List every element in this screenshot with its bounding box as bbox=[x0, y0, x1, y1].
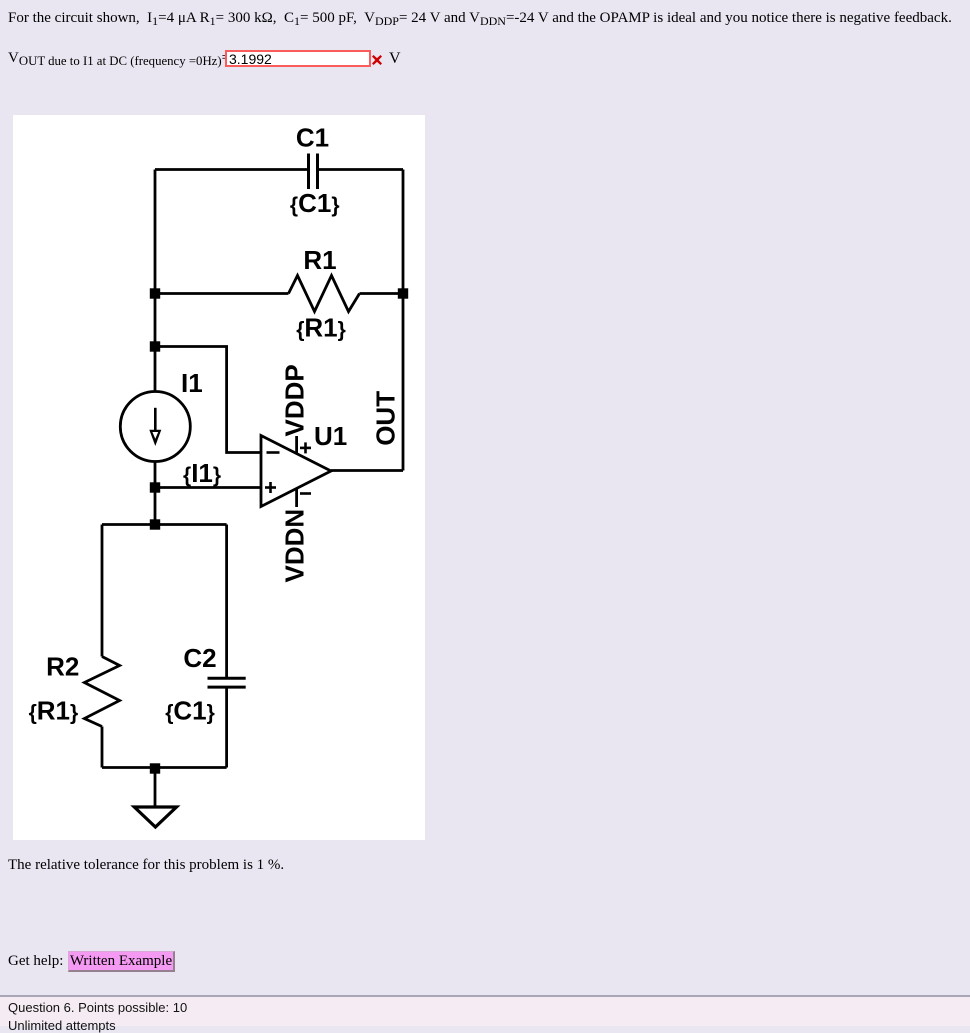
wire: branch to inverting input bbox=[155, 347, 261, 453]
junction (142,372.5) bbox=[150, 482, 160, 492]
ground triangle bbox=[134, 807, 176, 827]
supply plus sign bbox=[300, 447, 311, 450]
wire: R2 branch lower bbox=[101, 727, 104, 768]
current source open arrowhead bbox=[149, 430, 161, 446]
wire: R1 row left segment bbox=[155, 292, 289, 295]
answer line bbox=[8, 50, 230, 67]
wire: C2 branch upper bbox=[225, 525, 228, 679]
wire: top horizontal C1 right plate to right vertical bbox=[318, 168, 404, 171]
current source arrow shaft bbox=[154, 408, 157, 434]
wire: C2 branch lower bbox=[225, 687, 228, 767]
junction (142,652.5) bbox=[150, 763, 160, 773]
junction (142,178.5) bbox=[150, 288, 160, 298]
junction (142,231.5) bbox=[150, 341, 160, 351]
junction (390,178.5) bbox=[398, 288, 408, 298]
written example button bbox=[68, 951, 175, 972]
svg-text:U1: U1 bbox=[314, 421, 347, 451]
current source I1 circle bbox=[120, 392, 190, 462]
svg-text:{R1}: {R1} bbox=[29, 696, 79, 726]
ground stem bbox=[154, 768, 157, 808]
op-amp non-inverting plus bbox=[265, 486, 276, 489]
svg-text:{C1}: {C1} bbox=[165, 695, 215, 725]
tolerance note bbox=[8, 857, 284, 874]
svg-text:VDDN: VDDN bbox=[280, 509, 310, 583]
wire: R2 branch upper bbox=[101, 525, 104, 657]
wire: right vertical (x=390) bbox=[402, 170, 405, 471]
circuit image white box bbox=[13, 115, 425, 840]
capacitor C1 plates bbox=[307, 154, 310, 190]
wire: top horizontal to C1 left plate bbox=[155, 168, 309, 171]
svg-text:I1: I1 bbox=[181, 368, 203, 398]
capacitor C2 plates bbox=[208, 677, 246, 680]
op-amp VDDP supply pin bbox=[295, 436, 298, 454]
wire: top left vertical (x=142) bbox=[154, 170, 157, 392]
svg-text:C1: C1 bbox=[296, 123, 329, 153]
wire: loop bottom horizontal bbox=[102, 766, 227, 769]
svg-text:{I1}: {I1} bbox=[183, 458, 221, 488]
answer input box bbox=[225, 50, 371, 67]
resistor R2 zigzag bbox=[84, 657, 119, 727]
V unit label bbox=[389, 50, 401, 68]
svg-text:R1: R1 bbox=[303, 245, 336, 275]
wire: R1 row right segment bbox=[360, 292, 404, 295]
op-amp VDDN supply pin bbox=[295, 489, 298, 508]
bottom bar bbox=[0, 995, 970, 1026]
wire: loop top horizontal bbox=[102, 523, 227, 526]
svg-text:VDDP: VDDP bbox=[280, 364, 310, 436]
wire: circle bottom to loop top bbox=[154, 462, 157, 525]
supply minus sign bbox=[300, 492, 311, 495]
incorrect red x icon bbox=[372, 55, 382, 65]
svg-text:OUT: OUT bbox=[371, 391, 401, 446]
op-amp inverting minus bbox=[267, 451, 280, 454]
op-amp U1 triangle bbox=[261, 436, 331, 507]
junction (142,409.5) bbox=[150, 519, 160, 529]
wire: op-amp output bbox=[331, 469, 403, 472]
svg-text:C2: C2 bbox=[183, 643, 216, 673]
problem statement line 1 bbox=[8, 10, 952, 27]
svg-text:R2: R2 bbox=[46, 652, 79, 682]
resistor R1 zigzag bbox=[289, 276, 360, 312]
svg-text:{C1}: {C1} bbox=[290, 188, 340, 218]
svg-text:{R1}: {R1} bbox=[296, 313, 346, 343]
wire: non-inverting input bbox=[155, 486, 261, 489]
get help label bbox=[8, 953, 63, 970]
